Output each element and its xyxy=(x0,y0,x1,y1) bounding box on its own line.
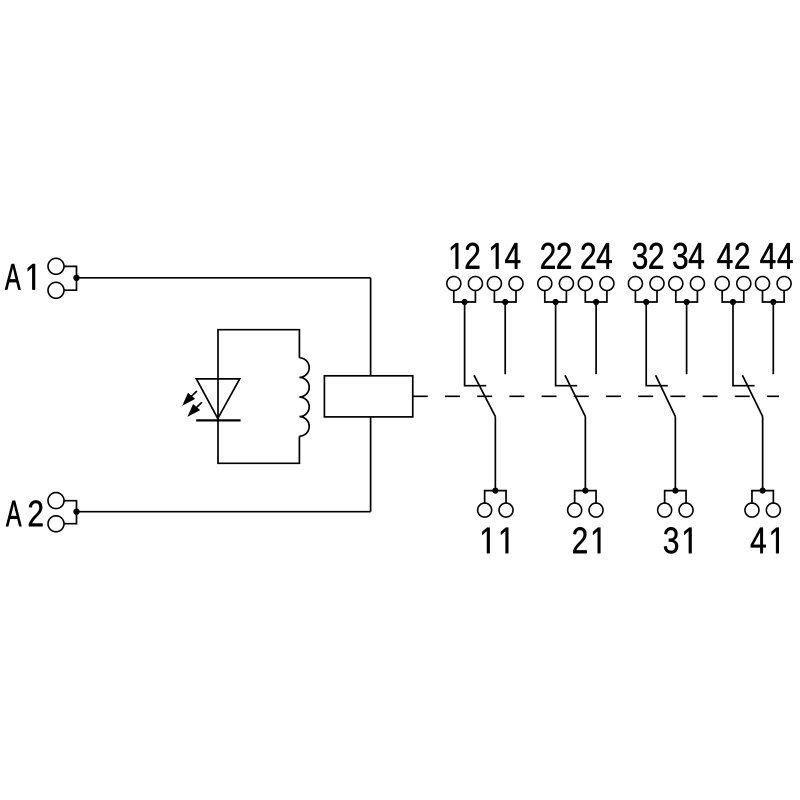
wire NO contact 24 xyxy=(595,302,597,374)
terminal 14 clamp circles xyxy=(487,277,501,291)
terminal 24 clamp circles xyxy=(578,277,592,291)
terminal 12 bracket wire xyxy=(454,290,476,302)
wire NO contact 14 xyxy=(504,302,506,374)
junction dot 22 xyxy=(553,299,559,305)
terminal 21 label xyxy=(573,527,600,553)
terminal 34 bracket wire xyxy=(676,290,698,302)
terminal 44 clamp circles xyxy=(756,277,770,291)
terminal 12 clamp circles xyxy=(447,277,461,291)
junction dot 11 xyxy=(492,488,498,494)
wire NC contact 12 xyxy=(465,302,487,386)
labels 42 44 xyxy=(717,243,792,269)
terminal 24 bracket wire xyxy=(585,290,607,302)
junction dot 41 xyxy=(760,488,766,494)
LED emission arrow 2 xyxy=(187,402,202,417)
labels 32 34 xyxy=(633,243,704,269)
terminal 21 clamp circles xyxy=(568,503,582,517)
wire A1 down to relay coil xyxy=(370,278,372,376)
switch lever pole 2 xyxy=(565,375,585,416)
terminal 41 label xyxy=(751,528,779,554)
terminal 44 bracket wire xyxy=(763,290,785,302)
terminal 31 label xyxy=(664,527,692,553)
wire common 41 xyxy=(762,417,764,491)
mechanical linkage dashed line xyxy=(413,395,779,397)
terminal 31 clamp circles xyxy=(658,503,672,517)
junction dot 42 xyxy=(730,299,736,305)
wire common 11 xyxy=(494,417,496,491)
terminal 21 bracket wire xyxy=(575,491,596,504)
labels 22 24 xyxy=(541,243,612,269)
junction dot 21 xyxy=(582,488,588,494)
terminal 11 bracket wire xyxy=(485,491,506,504)
wire NO contact 34 xyxy=(686,302,688,374)
terminal A1 label xyxy=(5,264,35,290)
terminal A1 bracket wire xyxy=(64,266,77,290)
wire NO contact 44 xyxy=(772,302,774,374)
terminal 31 bracket wire xyxy=(665,491,686,504)
indicator circuit box xyxy=(218,330,299,464)
wire relay coil down to A2 xyxy=(370,417,372,512)
junction dot 12 xyxy=(462,299,468,305)
terminal A2 label xyxy=(6,500,43,526)
coil winding on box right edge xyxy=(299,358,309,436)
switch lever pole 4 xyxy=(742,375,762,416)
wire common 31 xyxy=(674,417,676,491)
terminal 41 clamp circles xyxy=(745,503,759,517)
terminal A2 clamp circles xyxy=(48,493,64,509)
wire A2 horizontal xyxy=(77,511,371,513)
junction dot 32 xyxy=(643,299,649,305)
LED triangle xyxy=(196,379,239,419)
terminal 22 bracket wire xyxy=(545,290,567,302)
terminal 22 clamp circles xyxy=(538,277,552,291)
wire A1 horizontal xyxy=(77,277,371,279)
switch lever pole 1 xyxy=(474,375,495,416)
terminal 32 clamp circles xyxy=(628,277,642,291)
switch lever pole 3 xyxy=(656,375,676,416)
relay coil K1 box xyxy=(324,376,412,417)
junction dot 44 xyxy=(770,299,776,305)
wire NC contact 22 xyxy=(556,302,578,386)
junction dot A1 xyxy=(73,275,79,281)
terminal 11 clamp circles xyxy=(478,503,492,517)
wire common 21 xyxy=(584,417,586,491)
LED cathode bar xyxy=(196,419,240,421)
junction dot 34 xyxy=(684,299,690,305)
terminal 32 bracket wire xyxy=(635,290,657,302)
terminal A2 bracket wire xyxy=(64,501,77,524)
terminal 14 bracket wire xyxy=(494,290,516,302)
terminal A1 clamp circles xyxy=(48,258,64,274)
LED emission arrow 1 xyxy=(182,391,197,406)
terminal 11 label xyxy=(482,528,508,554)
labels 12 14 xyxy=(451,243,520,269)
terminal 34 clamp circles xyxy=(669,277,683,291)
terminal 42 bracket wire xyxy=(722,290,744,302)
terminal 42 clamp circles xyxy=(715,277,729,291)
junction dot 24 xyxy=(593,299,599,305)
wire NC contact 42 xyxy=(733,302,755,386)
junction dot 31 xyxy=(672,488,678,494)
junction dot A2 xyxy=(73,509,79,515)
terminal 41 bracket wire xyxy=(752,491,773,504)
junction dot 14 xyxy=(502,299,508,305)
wire NC contact 32 xyxy=(646,302,668,386)
